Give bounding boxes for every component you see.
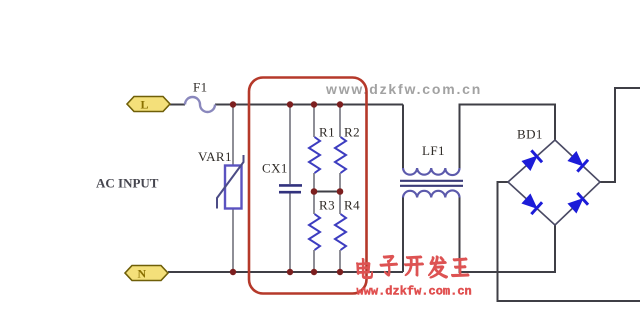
- wire R3 leads: [313, 192, 315, 273]
- fuse F1: [185, 97, 215, 112]
- wire BD1 right vertex to DC+ rail top right edge: [600, 88, 640, 182]
- svg-text:R4: R4: [344, 198, 360, 213]
- svg-text:AC INPUT: AC INPUT: [96, 176, 159, 191]
- wire R4 leads: [339, 192, 341, 273]
- diode D-bottomleft of BD1: [521, 193, 542, 214]
- wire LF1 left-bottom lead: [402, 198, 404, 273]
- wire CX1 top lead: [289, 105, 291, 185]
- junction dot bottom rail CX1: [287, 269, 293, 275]
- inductor LF1 bottom winding: [403, 190, 460, 197]
- svg-text:www.dzkfw.com.cn: www.dzkfw.com.cn: [325, 81, 482, 97]
- junction dot top rail R1: [311, 101, 317, 107]
- resistor R2 zigzag: [335, 137, 346, 173]
- resistor R1 zigzag: [309, 137, 320, 173]
- junction dot top rail VAR1: [230, 101, 236, 107]
- diode D-topleft of BD1: [521, 150, 542, 171]
- watermark red chinese characters: [357, 256, 470, 279]
- junction dot bottom rail VAR1: [230, 269, 236, 275]
- svg-text:L: L: [141, 98, 149, 112]
- svg-text:CX1: CX1: [262, 161, 288, 176]
- wire LF1 right-bottom lead to BD1 bottom vertex: [460, 198, 556, 273]
- varistor VAR1 body: [225, 166, 242, 209]
- wire BD1 left vertex to DC- rail bottom right edge: [498, 182, 640, 301]
- resistor R3 zigzag: [309, 214, 320, 250]
- svg-text:www.dzkfw.com.cn: www.dzkfw.com.cn: [357, 285, 472, 299]
- wire LF1 left-top lead: [402, 105, 404, 169]
- bridge BD1 diamond outline: [508, 140, 600, 225]
- svg-text:F1: F1: [193, 80, 208, 95]
- junction dot top rail R2: [337, 101, 343, 107]
- wire mid connector R1R3-R2R4: [314, 191, 340, 193]
- wire VAR1 top lead: [232, 105, 234, 166]
- wire LF1 right-top lead to BD1 top vertex: [460, 105, 556, 169]
- inductor LF1 core lines: [400, 181, 463, 186]
- wire R1 leads: [313, 105, 315, 192]
- diode D-topright of BD1: [567, 150, 588, 171]
- wire VAR1 bottom lead: [232, 209, 234, 272]
- svg-text:VAR1: VAR1: [198, 149, 232, 164]
- junction dot top rail CX1: [287, 101, 293, 107]
- svg-text:R1: R1: [319, 125, 335, 140]
- port tag N: [125, 266, 168, 281]
- wire R2 leads: [339, 105, 341, 192]
- svg-text:LF1: LF1: [422, 143, 445, 158]
- diode D-bottomright of BD1: [567, 193, 588, 214]
- svg-text:R2: R2: [344, 125, 360, 140]
- wire CX1 bottom lead: [289, 192, 291, 272]
- junction dot bottom rail R3: [311, 269, 317, 275]
- inductor LF1 top winding: [403, 168, 460, 175]
- svg-text:R3: R3: [319, 198, 335, 213]
- wire top rail fuse to LF1 left turn-down: [215, 104, 403, 106]
- resistor R4 zigzag: [335, 214, 346, 250]
- port tag L: [127, 97, 170, 112]
- capacitor CX1 plates: [279, 185, 302, 192]
- svg-text:BD1: BD1: [517, 127, 543, 142]
- junction dot mid R1-R3: [311, 188, 318, 195]
- varistor VAR1 diagonal: [217, 155, 244, 209]
- svg-text:N: N: [138, 267, 147, 281]
- wire top rail from L tag to fuse: [170, 104, 185, 106]
- junction dot bottom rail R4: [337, 269, 343, 275]
- junction dot mid R2-R4: [337, 188, 344, 195]
- red highlight rounded box: [249, 78, 367, 294]
- wire bottom rail from N tag to LF1 bottom-left: [168, 271, 403, 273]
